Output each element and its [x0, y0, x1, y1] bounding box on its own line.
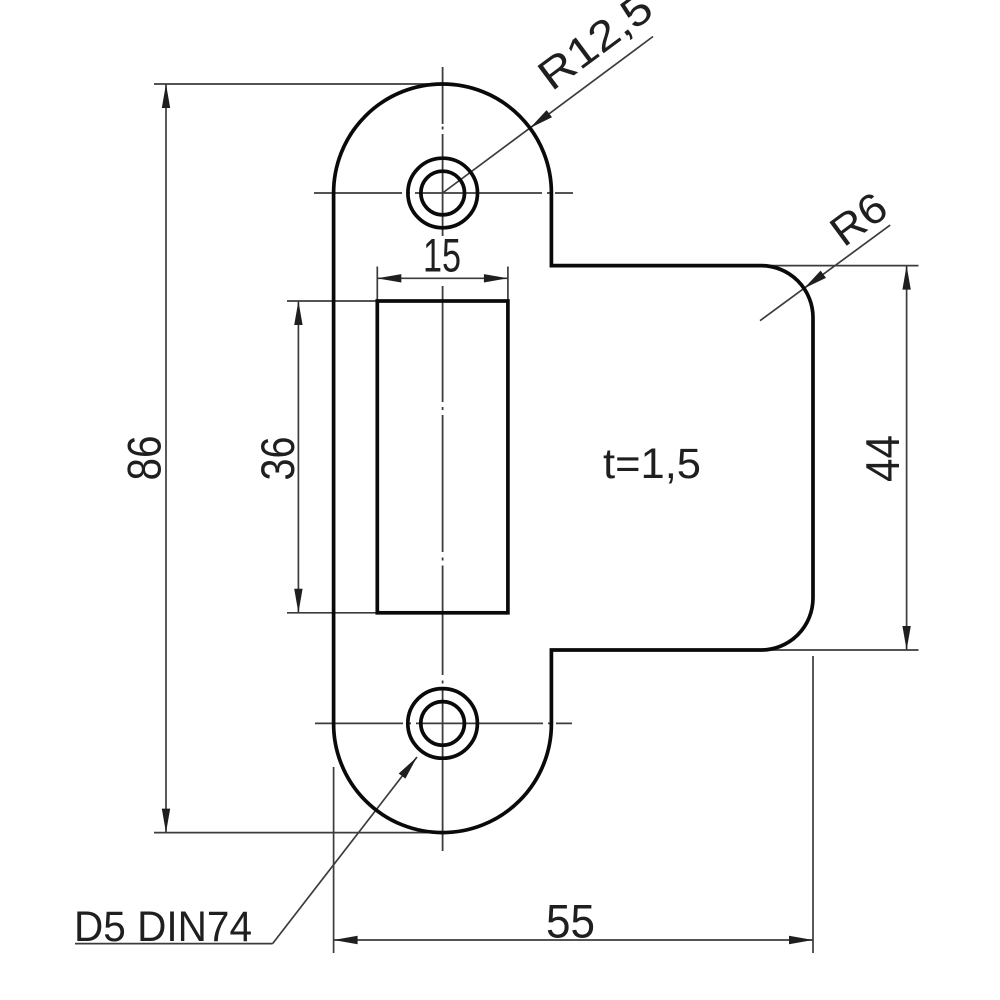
- centerline vertical main axis: [442, 67, 444, 851]
- latch cutout rectangle: [377, 301, 508, 613]
- dimension 55 extension line right: [812, 656, 814, 953]
- dimension 86 extension line top: [154, 83, 437, 85]
- leader R6 arrow: [804, 271, 826, 289]
- bottom hole inner circle: [421, 702, 465, 746]
- plate outline (stadium body with right tab): [334, 84, 813, 833]
- svg-text:86: 86: [118, 436, 171, 481]
- leader D5 DIN74 arrow: [399, 757, 417, 779]
- dimension 86 arrow top: [162, 84, 170, 108]
- dimension 15 arrow left: [377, 274, 401, 282]
- bottom hole countersink outer circle: [408, 689, 478, 759]
- leader D5 DIN74 diagonal line: [273, 757, 417, 944]
- dimension 36 arrow top: [294, 301, 302, 325]
- svg-text:R12,5: R12,5: [530, 0, 662, 100]
- svg-text:15: 15: [423, 229, 461, 282]
- dimension 44 extension line bottom: [761, 649, 919, 651]
- dimension 15 dimension line: [377, 277, 508, 279]
- leader R12,5 arrow: [530, 110, 552, 128]
- dimension 86 extension line bottom: [154, 832, 440, 834]
- leader D5 DIN74 underline: [75, 943, 273, 945]
- svg-text:36: 36: [251, 437, 304, 481]
- svg-text:55: 55: [546, 895, 595, 948]
- dimension 55 extension line left: [333, 767, 335, 953]
- centerline horizontal top hole: [314, 192, 573, 194]
- dimension 15 text clearance: [423, 236, 462, 273]
- top hole countersink outer circle: [408, 158, 478, 228]
- dimension 15 arrow right: [484, 274, 508, 282]
- dimension 36 dimension line: [297, 301, 299, 613]
- svg-text:44: 44: [856, 435, 909, 482]
- leader R12,5 line: [443, 37, 653, 194]
- dimension 86 dimension line: [165, 84, 167, 833]
- dimension 44 arrow bottom: [902, 626, 910, 650]
- dimension 55 arrow right: [789, 936, 813, 944]
- dimension 44 extension line top: [761, 265, 919, 267]
- centerline horizontal bottom hole: [315, 722, 572, 724]
- dimension 15 extension line right: [507, 267, 509, 302]
- svg-text:R6: R6: [822, 184, 897, 256]
- top hole inner circle: [421, 171, 465, 215]
- dimension 44 arrow top: [902, 266, 910, 290]
- leader R6 line: [760, 225, 890, 321]
- dimension 86 arrow bottom: [162, 809, 170, 833]
- dimension 36 arrow bottom: [294, 589, 302, 613]
- dimension 36 extension line bottom: [287, 612, 377, 614]
- dimension 55 dimension line: [334, 939, 813, 941]
- dimension 55 arrow left: [334, 936, 358, 944]
- dimension 44 dimension line: [906, 266, 908, 650]
- dimension 36 extension line top: [287, 300, 377, 302]
- svg-text:t=1,5: t=1,5: [603, 441, 701, 488]
- dimension 15 extension line left: [376, 267, 378, 302]
